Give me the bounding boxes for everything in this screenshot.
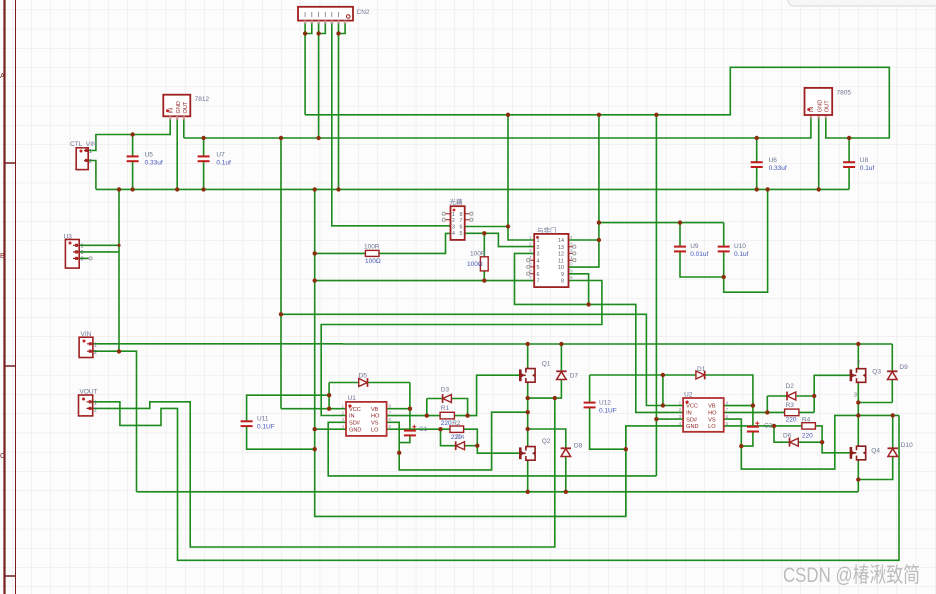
svg-text:C2: C2 (764, 423, 773, 430)
svg-text:5: 5 (460, 231, 463, 237)
svg-text:9: 9 (570, 268, 573, 273)
svg-text:光藕: 光藕 (450, 197, 464, 206)
svg-text:6: 6 (537, 272, 540, 278)
svg-text:D5: D5 (359, 373, 368, 380)
svg-text:8: 8 (570, 275, 573, 280)
svg-text:1: 1 (89, 149, 92, 155)
svg-text:U12: U12 (599, 400, 611, 407)
svg-text:4: 4 (342, 424, 345, 429)
svg-text:Q4: Q4 (871, 448, 880, 455)
svg-text:3: 3 (537, 252, 540, 258)
svg-text:11: 11 (558, 258, 564, 264)
svg-text:C1: C1 (419, 426, 428, 433)
svg-text:3: 3 (679, 414, 682, 419)
svg-text:2: 2 (679, 407, 682, 412)
svg-text:220: 220 (786, 416, 797, 423)
svg-text:CSDN @椿湫致简: CSDN @椿湫致简 (783, 564, 920, 587)
svg-text:7: 7 (726, 407, 729, 412)
svg-text:8: 8 (726, 400, 729, 405)
svg-text:U1: U1 (348, 395, 357, 402)
svg-text:4: 4 (679, 421, 682, 426)
svg-text:D3: D3 (441, 387, 450, 394)
svg-text:4: 4 (537, 258, 540, 264)
svg-text:3: 3 (854, 393, 857, 399)
svg-text:0.1uf: 0.1uf (216, 160, 231, 167)
svg-text:LO: LO (371, 427, 379, 433)
svg-text:R4: R4 (802, 416, 811, 423)
svg-text:0.1uf: 0.1uf (734, 251, 749, 258)
svg-text:2: 2 (94, 407, 97, 413)
svg-text:3: 3 (529, 248, 532, 253)
svg-text:D10: D10 (901, 442, 913, 449)
svg-text:0.1UF: 0.1UF (599, 408, 617, 415)
svg-text:VIN: VIN (81, 331, 92, 338)
svg-text:GND: GND (349, 427, 361, 433)
svg-text:GND: GND (818, 100, 824, 112)
svg-text:100R: 100R (364, 244, 380, 251)
svg-text:3: 3 (452, 225, 455, 231)
svg-text:9: 9 (561, 272, 564, 278)
svg-text:D6: D6 (783, 433, 792, 440)
svg-text:U11: U11 (257, 416, 269, 423)
svg-text:3: 3 (81, 257, 84, 263)
svg-text:4: 4 (570, 235, 573, 240)
svg-text:U5: U5 (145, 152, 154, 159)
svg-text:U6: U6 (769, 157, 778, 164)
svg-text:5: 5 (537, 265, 540, 271)
svg-text:D7: D7 (570, 373, 579, 380)
svg-text:U10: U10 (734, 243, 746, 250)
svg-text:7: 7 (389, 410, 392, 415)
svg-text:VOUT: VOUT (80, 389, 98, 396)
svg-text:U3: U3 (64, 234, 73, 241)
svg-text:CN2: CN2 (357, 9, 370, 16)
svg-text:VCC: VCC (686, 404, 698, 410)
svg-text:1: 1 (342, 404, 345, 409)
svg-text:U9: U9 (690, 243, 699, 250)
svg-text:R2: R2 (452, 420, 461, 427)
svg-text:0.33uf: 0.33uf (769, 165, 787, 172)
svg-text:13: 13 (558, 245, 564, 251)
svg-text:SD#: SD# (349, 421, 361, 427)
svg-text:220: 220 (802, 433, 813, 440)
svg-text:HO: HO (371, 414, 380, 420)
svg-text:2: 2 (89, 159, 92, 165)
svg-text:1: 1 (529, 235, 532, 240)
svg-text:IN: IN (809, 107, 815, 113)
svg-text:10: 10 (558, 265, 564, 271)
svg-text:IN: IN (169, 108, 175, 114)
svg-text:OUT: OUT (825, 100, 831, 112)
svg-text:VCC: VCC (349, 407, 361, 413)
svg-text:100Ω: 100Ω (365, 258, 381, 265)
svg-text:1: 1 (679, 400, 682, 405)
svg-text:7812: 7812 (195, 96, 210, 103)
svg-text:GND: GND (176, 101, 182, 113)
svg-text:D2: D2 (786, 383, 795, 390)
svg-text:IN: IN (349, 414, 355, 420)
svg-text:100Ω: 100Ω (467, 261, 483, 268)
svg-text:Q3: Q3 (872, 369, 881, 376)
svg-text:U8: U8 (860, 157, 869, 164)
svg-text:5: 5 (389, 424, 392, 429)
svg-text:6: 6 (726, 414, 729, 419)
svg-text:Q2: Q2 (542, 438, 551, 445)
svg-text:6: 6 (460, 225, 463, 231)
svg-text:2: 2 (81, 250, 84, 256)
svg-text:A: A (0, 73, 5, 80)
svg-text:1: 1 (94, 400, 97, 406)
svg-text:220: 220 (441, 420, 452, 427)
svg-text:1: 1 (94, 342, 97, 348)
svg-text:2: 2 (452, 218, 455, 224)
svg-text:U2: U2 (684, 392, 693, 399)
svg-text:D9: D9 (899, 364, 908, 371)
svg-text:8: 8 (460, 212, 463, 218)
svg-text:VS: VS (371, 421, 379, 427)
svg-text:14: 14 (558, 238, 564, 244)
svg-text:3: 3 (342, 417, 345, 422)
svg-text:GND: GND (686, 424, 698, 430)
svg-text:2: 2 (857, 360, 860, 366)
svg-text:8: 8 (561, 279, 564, 285)
svg-text:6: 6 (389, 417, 392, 422)
svg-text:2: 2 (342, 410, 345, 415)
svg-text:7: 7 (529, 275, 532, 280)
svg-text:7: 7 (537, 279, 540, 285)
svg-text:1: 1 (537, 238, 540, 244)
svg-text:与非门: 与非门 (537, 226, 557, 235)
svg-text:B: B (0, 253, 5, 260)
svg-text:7805: 7805 (837, 90, 852, 97)
svg-text:8: 8 (389, 404, 392, 409)
svg-text:12: 12 (558, 252, 564, 258)
svg-text:7: 7 (460, 218, 463, 224)
svg-text:0.33uf: 0.33uf (145, 160, 163, 167)
svg-text:R1: R1 (441, 405, 450, 412)
svg-text:2: 2 (537, 245, 540, 251)
svg-text:U7: U7 (216, 152, 225, 159)
svg-text:0: 0 (570, 262, 573, 267)
svg-text:VS: VS (708, 417, 716, 423)
svg-text:D8: D8 (574, 443, 583, 450)
svg-text:CTL_VIN: CTL_VIN (70, 141, 97, 148)
svg-text:IN: IN (686, 411, 692, 417)
svg-text:0.01uf: 0.01uf (690, 251, 708, 258)
svg-text:R3: R3 (786, 402, 795, 409)
svg-text:0.1uf: 0.1uf (860, 165, 875, 172)
svg-text:2: 2 (94, 350, 97, 356)
svg-text:VB: VB (708, 404, 716, 410)
svg-text:0.1UF: 0.1UF (257, 424, 275, 431)
svg-text:D4: D4 (456, 434, 465, 441)
svg-text:HO: HO (708, 411, 717, 417)
svg-text:4: 4 (452, 231, 455, 237)
svg-text:OUT: OUT (183, 101, 189, 113)
svg-text:LO: LO (708, 424, 716, 430)
svg-text:SD#: SD# (686, 417, 698, 423)
svg-text:5: 5 (726, 421, 729, 426)
svg-text:100R: 100R (470, 251, 486, 258)
svg-text:D1: D1 (697, 366, 706, 373)
svg-text:1: 1 (452, 212, 455, 218)
svg-text:VB: VB (371, 407, 379, 413)
svg-text:C: C (0, 453, 5, 460)
svg-text:1: 1 (81, 244, 84, 250)
svg-text:Q1: Q1 (542, 361, 551, 368)
svg-text:2: 2 (529, 242, 532, 247)
